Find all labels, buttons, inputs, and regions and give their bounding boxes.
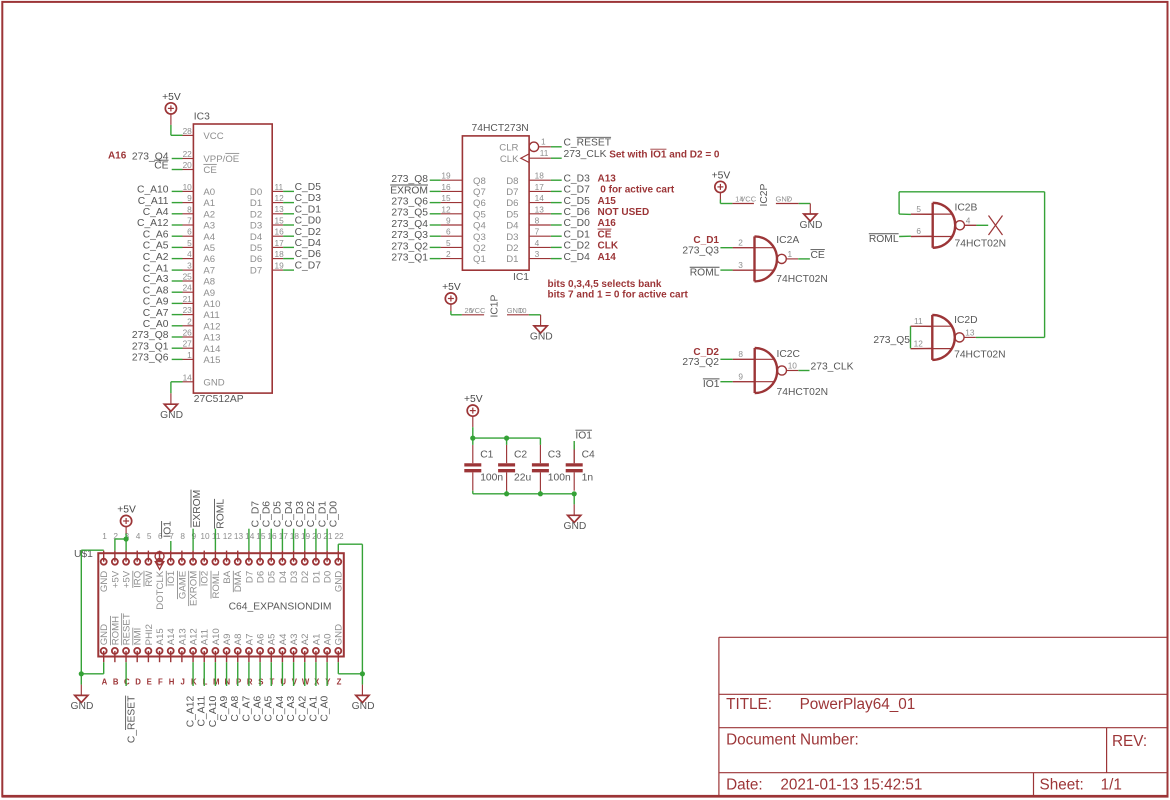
svg-text:+5V: +5V bbox=[110, 570, 121, 588]
svg-text:18: 18 bbox=[290, 531, 300, 541]
svg-text:C_D1: C_D1 bbox=[295, 204, 322, 215]
IC1 pin 16 Q7 bbox=[441, 190, 463, 192]
svg-text:74HCT02N: 74HCT02N bbox=[777, 387, 829, 398]
IC1 pin 4 D2 bbox=[529, 246, 551, 248]
U$1 bottom pin N A9 bbox=[226, 651, 228, 662]
svg-text:22: 22 bbox=[334, 531, 344, 541]
wire net C_D2 bbox=[283, 235, 294, 237]
svg-text:A16: A16 bbox=[598, 218, 617, 229]
IC3 pin 16 D4 bbox=[272, 235, 283, 237]
svg-text:RW: RW bbox=[144, 570, 155, 587]
svg-text:27: 27 bbox=[183, 339, 193, 349]
wire +5V to U$1 pins 2 3 bbox=[125, 527, 127, 534]
wire net C_A4 bbox=[172, 213, 183, 215]
wire net EXROM from U$1 pin 9 bbox=[192, 529, 194, 551]
svg-text:C_A7: C_A7 bbox=[143, 308, 169, 319]
svg-text:M: M bbox=[213, 678, 220, 687]
U$1 top pin 20 D1 bbox=[315, 551, 317, 562]
IC3 pin 14 GND bbox=[183, 381, 194, 383]
svg-text:C_A1: C_A1 bbox=[308, 696, 319, 722]
U$1 top pin 13 DMA bbox=[237, 551, 239, 562]
IC1 pin 18 D8 bbox=[529, 179, 551, 181]
svg-text:D2: D2 bbox=[506, 243, 518, 254]
svg-text:GND: GND bbox=[334, 571, 345, 592]
svg-text:A: A bbox=[102, 678, 108, 687]
svg-text:A2: A2 bbox=[203, 209, 215, 220]
wire net 273_Q6 bbox=[430, 202, 441, 204]
IC3 pin 10 A0 bbox=[183, 190, 194, 192]
wire +5V to top rail bbox=[472, 416, 474, 427]
U$1 bottom pin W A2 bbox=[304, 651, 306, 662]
svg-text:and D2 = 0: and D2 = 0 bbox=[666, 150, 720, 161]
U$1 bottom pin P A8 bbox=[237, 651, 239, 662]
svg-text:D7: D7 bbox=[244, 571, 255, 583]
wire +5V to IC1P VCC bbox=[450, 304, 452, 311]
svg-text:4: 4 bbox=[966, 215, 971, 225]
svg-text:C_A2: C_A2 bbox=[143, 252, 169, 263]
IC3 pin 15 D3 bbox=[272, 224, 283, 226]
svg-text:2021-01-13 15:42:51: 2021-01-13 15:42:51 bbox=[780, 776, 922, 793]
svg-text:273_Q4: 273_Q4 bbox=[132, 152, 169, 163]
connector U$1 body bbox=[98, 553, 343, 656]
svg-text:A4: A4 bbox=[203, 232, 215, 243]
svg-text:D4: D4 bbox=[278, 570, 289, 583]
U$1 bottom pin Z GND bbox=[337, 651, 339, 662]
IC3 pin 17 D5 bbox=[272, 246, 283, 248]
svg-text:19: 19 bbox=[275, 261, 285, 271]
svg-text:273_Q4: 273_Q4 bbox=[391, 219, 428, 230]
svg-text:13: 13 bbox=[965, 327, 975, 337]
ground at capacitor bank bbox=[568, 515, 581, 522]
wire net ROML to IC2B pin 6 bbox=[899, 235, 911, 237]
wire net C_A12 from U$1 pin K bbox=[192, 662, 194, 686]
ground at IC1P bbox=[534, 326, 547, 333]
svg-text:C_RESET: C_RESET bbox=[127, 695, 138, 743]
svg-text:A14: A14 bbox=[166, 628, 177, 646]
junction at C3 bottom bbox=[538, 491, 543, 496]
wire net C_A11 from U$1 pin L bbox=[203, 662, 205, 686]
wire bottom rail bbox=[473, 493, 574, 495]
IC2B output bubble bbox=[955, 221, 964, 230]
svg-text:C_A0: C_A0 bbox=[320, 696, 331, 722]
svg-text:7: 7 bbox=[535, 227, 540, 237]
svg-text:A10: A10 bbox=[203, 299, 220, 310]
wire U$1 pin 1 to left ground rail bbox=[81, 549, 103, 551]
svg-text:VCC: VCC bbox=[740, 195, 756, 204]
svg-text:+5V: +5V bbox=[712, 170, 731, 181]
svg-text:+5V: +5V bbox=[117, 504, 136, 515]
svg-text:16: 16 bbox=[267, 531, 277, 541]
svg-text:4: 4 bbox=[136, 531, 141, 541]
svg-text:GND: GND bbox=[800, 220, 823, 231]
svg-text:ROML: ROML bbox=[869, 234, 899, 245]
svg-text:C_A12: C_A12 bbox=[137, 218, 169, 229]
wire net C_A8 bbox=[172, 291, 183, 293]
wire net C_A10 from U$1 pin M bbox=[214, 662, 216, 686]
svg-text:9: 9 bbox=[738, 371, 743, 381]
IC1 pin 14 D6 bbox=[529, 202, 551, 204]
ground at IC3 bbox=[164, 404, 177, 411]
svg-text:C_D3: C_D3 bbox=[295, 501, 306, 528]
U$1 bottom pin F A15 bbox=[159, 651, 161, 662]
svg-text:IO1: IO1 bbox=[650, 150, 667, 161]
U$1 top pin 16 D5 bbox=[270, 551, 272, 562]
IC3 pin 20 CE bbox=[183, 169, 194, 171]
U$1 bottom pin D NMI bbox=[136, 651, 138, 662]
IC3 pin 13 D2 bbox=[272, 213, 283, 215]
svg-text:C_D4: C_D4 bbox=[564, 252, 591, 263]
svg-text:Q8: Q8 bbox=[473, 176, 486, 187]
svg-text:14: 14 bbox=[183, 372, 193, 382]
junction at C4 bottom bbox=[572, 491, 577, 496]
wire net C_D4 bbox=[283, 246, 294, 248]
IC3 pin 22 VPP/OE bbox=[183, 158, 194, 160]
svg-text:24: 24 bbox=[183, 283, 193, 293]
svg-text:D8: D8 bbox=[506, 176, 518, 187]
IC3 pin 27 A14 bbox=[183, 347, 194, 349]
U$1 bottom pin M A10 bbox=[214, 651, 216, 662]
svg-text:A5: A5 bbox=[203, 243, 215, 254]
wire net C_D2 from U$1 pin 19 bbox=[304, 529, 306, 551]
U$1 bottom pin A GND bbox=[103, 651, 105, 662]
svg-text:A4: A4 bbox=[278, 633, 289, 645]
svg-text:C_A2: C_A2 bbox=[297, 696, 308, 722]
wire net C_D3 bbox=[283, 202, 294, 204]
svg-text:100n: 100n bbox=[480, 472, 503, 483]
svg-text:R: R bbox=[247, 678, 253, 687]
svg-text:P: P bbox=[236, 678, 241, 687]
svg-text:C_D1: C_D1 bbox=[564, 229, 591, 240]
NOR gate IC2B body bbox=[932, 203, 934, 248]
IC1 pin 8 D4 bbox=[529, 224, 551, 226]
ground at IC2P bbox=[804, 214, 817, 221]
svg-text:14: 14 bbox=[535, 193, 545, 203]
svg-text:CE: CE bbox=[203, 165, 216, 176]
svg-text:+5V: +5V bbox=[442, 282, 461, 293]
svg-text:A0: A0 bbox=[203, 187, 215, 198]
wire net 273_Q1 bbox=[172, 347, 183, 349]
IC1 pin 17 D7 bbox=[529, 190, 551, 192]
IC1P power gate pin 10 GND bbox=[507, 314, 529, 316]
svg-text:0 for active cart: 0 for active cart bbox=[598, 185, 675, 196]
svg-text:13: 13 bbox=[535, 204, 545, 214]
capacitor C2 bbox=[506, 445, 508, 463]
svg-text:D4: D4 bbox=[250, 232, 263, 243]
svg-text:NMI: NMI bbox=[133, 628, 144, 646]
U$1 bottom pin Y A0 bbox=[326, 651, 328, 662]
svg-text:7: 7 bbox=[786, 195, 790, 204]
svg-text:10: 10 bbox=[183, 182, 193, 192]
wire net C_A2 from U$1 pin W bbox=[304, 662, 306, 686]
IC2D output bubble bbox=[955, 333, 964, 342]
svg-text:IC1: IC1 bbox=[513, 272, 529, 283]
svg-text:5: 5 bbox=[147, 531, 152, 541]
U$1 top pin 14 D7 bbox=[248, 551, 250, 562]
svg-text:23: 23 bbox=[183, 305, 193, 315]
wire net 273_CLK bbox=[551, 157, 562, 159]
svg-text:12: 12 bbox=[275, 193, 285, 203]
svg-text:9: 9 bbox=[192, 531, 197, 541]
IC2A output bubble bbox=[777, 254, 786, 263]
wire net 273_Q8 bbox=[430, 179, 441, 181]
svg-text:IC2B: IC2B bbox=[955, 203, 978, 214]
svg-text:C_A3: C_A3 bbox=[143, 274, 169, 285]
junction at C1 top bbox=[470, 436, 475, 441]
title block frame bbox=[719, 636, 1167, 638]
svg-text:IO1: IO1 bbox=[162, 521, 173, 538]
svg-text:14: 14 bbox=[245, 531, 255, 541]
wire U$1 pin A to ground rail bbox=[103, 662, 105, 674]
svg-text:EXROM: EXROM bbox=[192, 490, 203, 528]
svg-text:GND: GND bbox=[99, 571, 110, 592]
svg-text:IO1: IO1 bbox=[575, 431, 592, 442]
svg-text:21: 21 bbox=[323, 531, 333, 541]
svg-text:B: B bbox=[113, 678, 119, 687]
wire net C_A4 from U$1 pin U bbox=[281, 662, 283, 686]
svg-text:10: 10 bbox=[788, 361, 798, 371]
svg-text:PHI2: PHI2 bbox=[144, 624, 155, 645]
svg-text:C_D2: C_D2 bbox=[306, 501, 317, 528]
svg-text:Document Number:: Document Number: bbox=[726, 732, 859, 749]
wire net 273_Q3 bbox=[430, 235, 441, 237]
wire net C_D6 bbox=[551, 213, 562, 215]
svg-text:S: S bbox=[258, 678, 263, 687]
svg-text:273_Q1: 273_Q1 bbox=[391, 253, 428, 264]
wire net C_A7 from U$1 pin R bbox=[248, 662, 250, 686]
svg-text:EXROM: EXROM bbox=[188, 571, 199, 606]
svg-text:A13: A13 bbox=[598, 173, 617, 184]
IC3 pin 9 A1 bbox=[183, 202, 194, 204]
svg-text:74HCT273N: 74HCT273N bbox=[472, 123, 529, 134]
wire net C_RESET bbox=[551, 146, 562, 148]
svg-text:A15: A15 bbox=[598, 196, 617, 207]
svg-text:16: 16 bbox=[441, 182, 451, 192]
wire net C_A0 from U$1 pin Y bbox=[326, 662, 328, 686]
svg-text:C: C bbox=[124, 678, 130, 687]
svg-text:6: 6 bbox=[187, 227, 192, 237]
wire net C_RESET from U$1 pin C bbox=[125, 662, 127, 686]
svg-text:C_D2: C_D2 bbox=[564, 241, 591, 252]
svg-text:C_A4: C_A4 bbox=[143, 207, 169, 218]
IC3 pin 23 A11 bbox=[183, 314, 194, 316]
IC1P power gate pin 20 VCC bbox=[462, 314, 484, 316]
svg-text:3: 3 bbox=[187, 261, 192, 271]
svg-text:273_Q6: 273_Q6 bbox=[391, 197, 428, 208]
IC2C output bubble bbox=[777, 366, 786, 375]
+5V supply at IC2P bbox=[715, 181, 726, 192]
IC1 pin 6 Q3 bbox=[441, 235, 463, 237]
svg-text:bits 0,3,4,5 selects bank: bits 0,3,4,5 selects bank bbox=[548, 279, 662, 290]
wire net 273_Q4 bbox=[430, 224, 441, 226]
U$1 bottom pin L A11 bbox=[203, 651, 205, 662]
wire net C_D4 bbox=[551, 258, 562, 260]
wire net C_A7 bbox=[172, 314, 183, 316]
svg-text:21: 21 bbox=[183, 294, 193, 304]
IC3 pin 28 VCC bbox=[183, 134, 194, 136]
svg-text:D3: D3 bbox=[506, 232, 518, 243]
svg-text:Y: Y bbox=[325, 678, 331, 687]
wire net 273_Q6 bbox=[172, 358, 183, 360]
U$1 top pin 7 IO1 bbox=[170, 551, 172, 562]
wire +5V to IC2P VCC bbox=[719, 192, 721, 199]
svg-text:IC1P: IC1P bbox=[489, 294, 500, 317]
svg-text:20: 20 bbox=[183, 160, 193, 170]
wire net 273_Q5 bbox=[430, 213, 441, 215]
svg-text:TITLE:: TITLE: bbox=[726, 696, 772, 713]
wire net C_A11 bbox=[172, 202, 183, 204]
IC1 pin 11 CLK with clock symbol bbox=[521, 154, 529, 163]
svg-text:12: 12 bbox=[223, 531, 233, 541]
svg-text:BA: BA bbox=[222, 570, 233, 583]
svg-text:DOTCLK: DOTCLK bbox=[155, 570, 166, 610]
wire net C_A1 bbox=[172, 269, 183, 271]
wire net C_D7 from U$1 pin 14 bbox=[248, 529, 250, 551]
svg-text:GND: GND bbox=[563, 521, 586, 532]
svg-text:16: 16 bbox=[275, 227, 285, 237]
U$1 bottom pin V A3 bbox=[293, 651, 295, 662]
svg-text:17: 17 bbox=[535, 182, 545, 192]
svg-text:8: 8 bbox=[535, 216, 540, 226]
svg-text:D6: D6 bbox=[506, 198, 518, 209]
svg-text:ROML: ROML bbox=[690, 268, 720, 279]
svg-text:12: 12 bbox=[914, 338, 924, 348]
wire net CE bbox=[172, 169, 183, 171]
svg-text:6: 6 bbox=[446, 227, 451, 237]
U$1 top pin 8 GAME bbox=[181, 551, 183, 562]
register IC1 body bbox=[462, 136, 529, 270]
U$1 bottom pin S A6 bbox=[259, 651, 261, 662]
svg-text:VCC: VCC bbox=[203, 131, 223, 142]
svg-text:12: 12 bbox=[441, 204, 451, 214]
svg-text:8: 8 bbox=[738, 349, 743, 359]
svg-text:IC2C: IC2C bbox=[777, 349, 801, 360]
svg-text:GND: GND bbox=[160, 410, 183, 421]
svg-text:+5V: +5V bbox=[464, 394, 483, 405]
svg-text:19: 19 bbox=[441, 171, 451, 181]
junction at C2 bottom bbox=[504, 491, 509, 496]
svg-text:T: T bbox=[270, 678, 275, 687]
junction at C2 top bbox=[504, 436, 509, 441]
wire from IC2D output to IC2B pin 5 bbox=[899, 213, 911, 215]
svg-text:5: 5 bbox=[446, 238, 451, 248]
wire IC2P GND to ground bbox=[799, 203, 811, 205]
wire +5V to IC3 VCC bbox=[170, 114, 172, 125]
wire net C_A10 bbox=[172, 190, 183, 192]
U$1 top pin 19 D2 bbox=[304, 551, 306, 562]
svg-text:D1: D1 bbox=[506, 254, 518, 265]
svg-text:A10: A10 bbox=[211, 628, 222, 645]
U$1 bottom pin K A12 bbox=[192, 651, 194, 662]
svg-text:C_D3: C_D3 bbox=[295, 193, 322, 204]
NOR gate IC2C body bbox=[754, 348, 756, 393]
svg-text:1n: 1n bbox=[582, 472, 594, 483]
wire C1 top to rail bbox=[472, 438, 474, 445]
wire C1 bottom to rail bbox=[472, 491, 474, 494]
wire net 273_Q4 bbox=[172, 158, 183, 160]
svg-text:A8: A8 bbox=[233, 634, 244, 646]
wire U$1 pin Z to ground rail bbox=[337, 662, 339, 674]
svg-text:C_D4: C_D4 bbox=[284, 501, 295, 528]
wire net C_A2 bbox=[172, 258, 183, 260]
svg-text:bits 7 and 1 = 0 for active ca: bits 7 and 1 = 0 for active cart bbox=[548, 290, 689, 301]
wire net C_A6 from U$1 pin S bbox=[259, 662, 261, 686]
svg-text:1: 1 bbox=[541, 137, 546, 147]
svg-text:11: 11 bbox=[914, 316, 923, 326]
U$1 bottom pin E PHI2 bbox=[147, 651, 149, 662]
no-connect cross at IC2B pin 4 bbox=[989, 216, 1003, 236]
svg-text:C_D6: C_D6 bbox=[261, 501, 272, 528]
svg-text:C_A9: C_A9 bbox=[143, 297, 169, 308]
svg-text:100n: 100n bbox=[548, 472, 571, 483]
svg-text:A1: A1 bbox=[203, 198, 215, 209]
wire C2 top to rail bbox=[506, 438, 508, 445]
svg-text:C_A4: C_A4 bbox=[275, 696, 286, 722]
svg-text:C_D4: C_D4 bbox=[295, 238, 322, 249]
+5V supply at IC3 bbox=[165, 103, 176, 114]
svg-text:3: 3 bbox=[738, 260, 743, 270]
wire net EXROM bbox=[430, 190, 441, 192]
wire net C_D1 bbox=[551, 235, 562, 237]
wire top rail bbox=[473, 437, 541, 439]
U$1 top pin 22 GND bbox=[337, 551, 339, 562]
svg-text:D5: D5 bbox=[267, 571, 278, 583]
svg-text:GND: GND bbox=[71, 701, 94, 712]
IC3 pin 19 D7 bbox=[272, 269, 283, 271]
svg-text:C_A7: C_A7 bbox=[241, 696, 252, 722]
svg-text:J: J bbox=[181, 678, 185, 687]
IC3 pin 5 A5 bbox=[183, 246, 194, 248]
IC2P power gate pin 14 VCC bbox=[732, 203, 754, 205]
wire net C_A5 bbox=[172, 246, 183, 248]
+5V supply at IC1P bbox=[445, 293, 456, 304]
svg-text:PowerPlay64_01: PowerPlay64_01 bbox=[800, 696, 916, 713]
svg-text:A16: A16 bbox=[108, 150, 127, 161]
svg-text:273_Q5: 273_Q5 bbox=[391, 208, 428, 219]
wire net C_D1 bbox=[283, 213, 294, 215]
svg-text:CE: CE bbox=[811, 250, 825, 261]
capacitor C1 bbox=[472, 445, 474, 463]
svg-text:273_Q5: 273_Q5 bbox=[873, 335, 910, 346]
svg-text:+5V: +5V bbox=[162, 92, 181, 103]
svg-text:C_A10: C_A10 bbox=[208, 696, 219, 728]
svg-text:10: 10 bbox=[518, 306, 526, 315]
svg-text:1: 1 bbox=[788, 249, 793, 259]
svg-text:GND: GND bbox=[334, 624, 345, 645]
svg-text:Q5: Q5 bbox=[473, 209, 486, 220]
U$1 bottom pin X A1 bbox=[315, 651, 317, 662]
svg-text:1/1: 1/1 bbox=[1101, 776, 1122, 793]
svg-text:C3: C3 bbox=[548, 450, 561, 461]
svg-text:A1: A1 bbox=[311, 634, 322, 646]
svg-text:A2: A2 bbox=[300, 634, 311, 646]
svg-text:A11: A11 bbox=[203, 310, 219, 321]
U$1 bottom pin H A14 bbox=[170, 651, 172, 662]
svg-text:C2: C2 bbox=[514, 450, 527, 461]
IC1 pin 3 D1 bbox=[529, 258, 551, 260]
IC1 pin 1 CLR with inversion bubble bbox=[529, 142, 538, 151]
svg-text:Q3: Q3 bbox=[473, 232, 486, 243]
svg-text:N: N bbox=[225, 678, 231, 687]
wire net C_A5 from U$1 pin T bbox=[270, 662, 272, 686]
IC3 pin 12 D1 bbox=[272, 202, 283, 204]
svg-text:A15: A15 bbox=[203, 355, 220, 366]
svg-text:A8: A8 bbox=[203, 277, 215, 288]
U$1 top pin 15 D6 bbox=[259, 551, 261, 562]
svg-text:A3: A3 bbox=[203, 221, 215, 232]
U$1 bottom pin U A4 bbox=[281, 651, 283, 662]
svg-text:C_D5: C_D5 bbox=[564, 196, 591, 207]
svg-text:+5V: +5V bbox=[121, 570, 132, 588]
